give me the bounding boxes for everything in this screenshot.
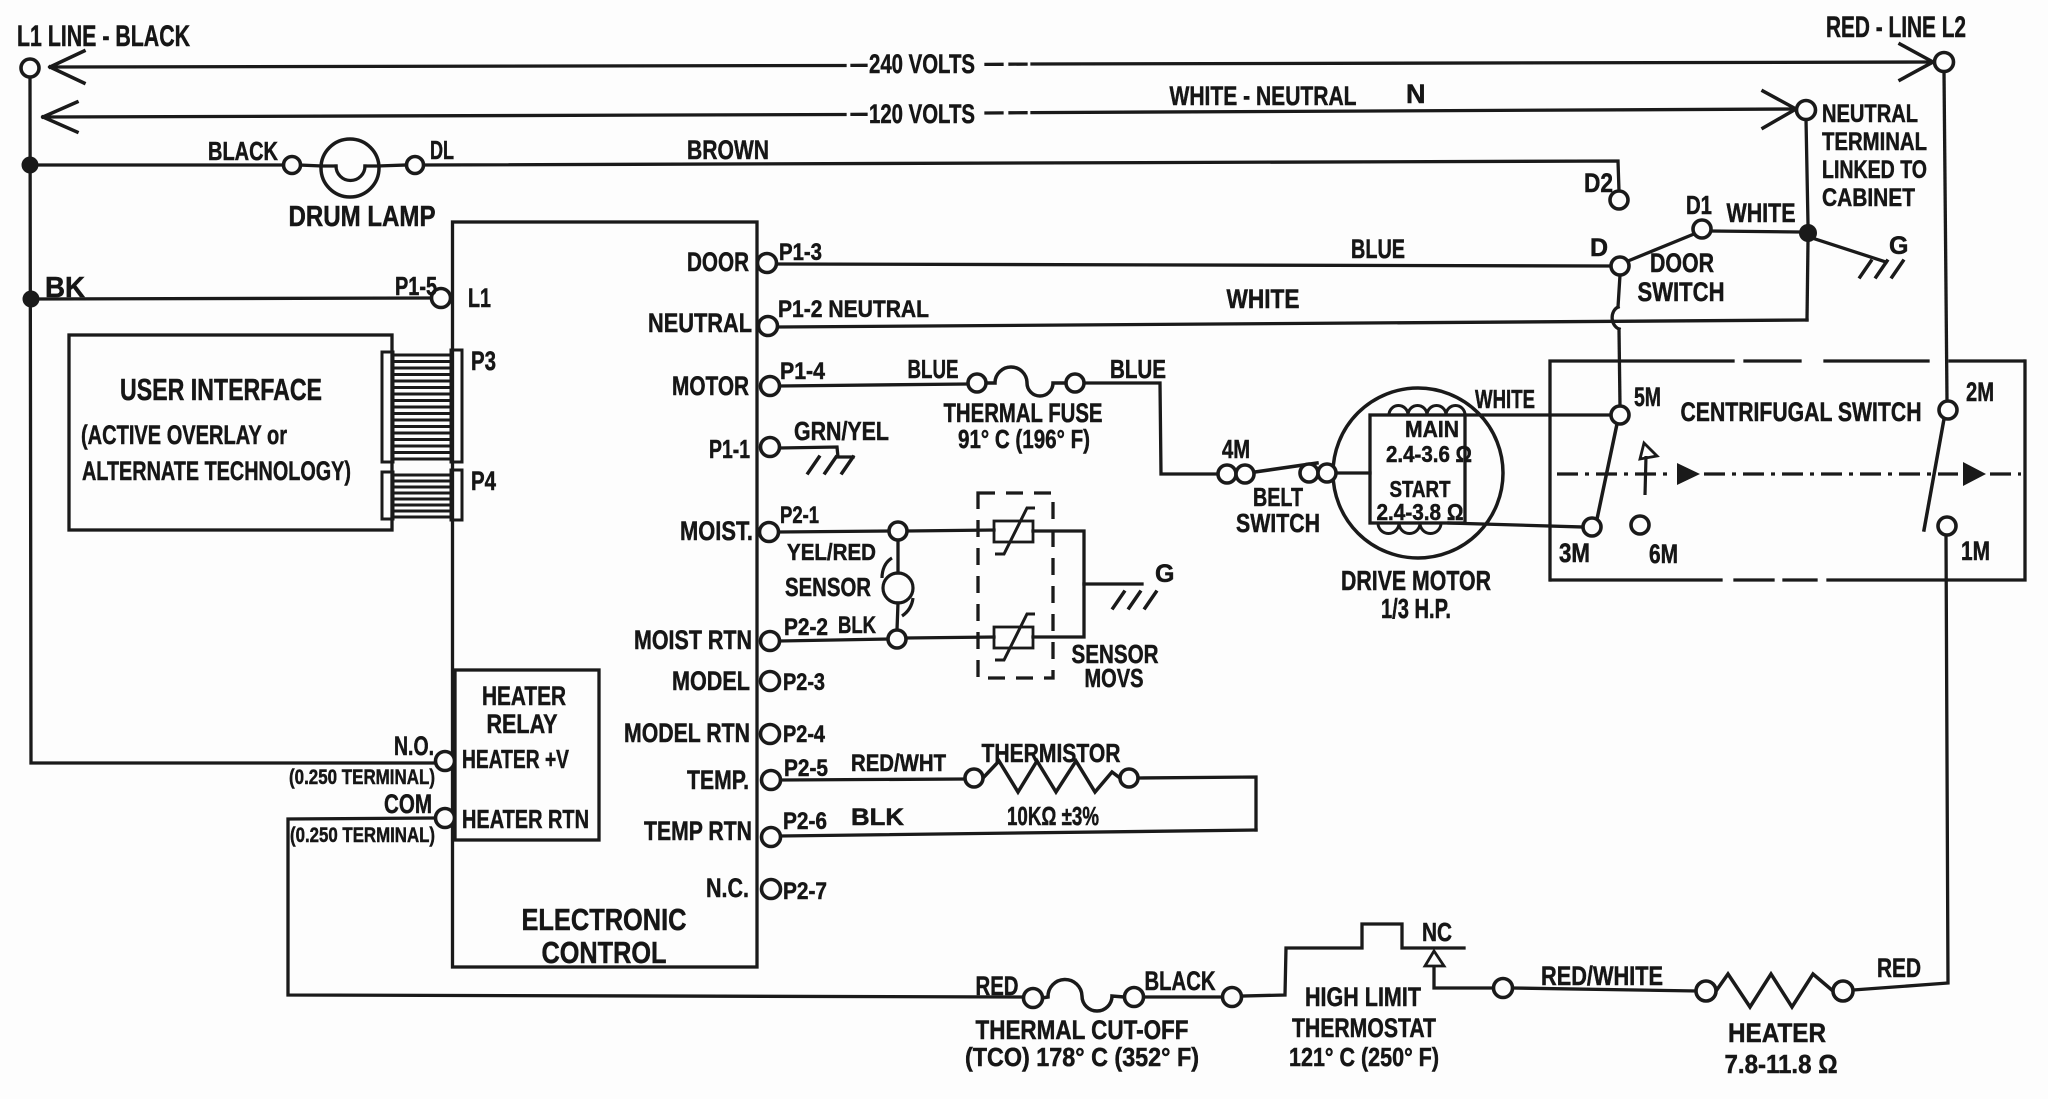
- svg-text:HEATER: HEATER: [1728, 1018, 1826, 1048]
- svg-text:BLK: BLK: [838, 612, 877, 639]
- svg-text:HIGH LIMIT: HIGH LIMIT: [1305, 982, 1421, 1012]
- svg-text:4M: 4M: [1222, 434, 1250, 464]
- svg-text:RELAY: RELAY: [487, 709, 558, 739]
- svg-text:YEL/RED: YEL/RED: [787, 539, 876, 565]
- svg-text:DOOR: DOOR: [687, 247, 749, 277]
- svg-text:2.4-3.8 Ω: 2.4-3.8 Ω: [1377, 499, 1464, 525]
- svg-text:D: D: [1590, 234, 1608, 262]
- svg-text:COM: COM: [384, 789, 432, 819]
- svg-text:CENTRIFUGAL SWITCH: CENTRIFUGAL SWITCH: [1681, 397, 1922, 427]
- svg-text:P2-3: P2-3: [783, 669, 825, 696]
- svg-text:ELECTRONIC: ELECTRONIC: [522, 902, 687, 937]
- svg-text:P2-5: P2-5: [784, 755, 828, 782]
- svg-text:(TCO) 178° C (352° F): (TCO) 178° C (352° F): [965, 1042, 1199, 1072]
- svg-text:3M: 3M: [1559, 538, 1590, 568]
- svg-text:RED - LINE L2: RED - LINE L2: [1826, 11, 1966, 44]
- svg-text:121° C (250° F): 121° C (250° F): [1289, 1042, 1439, 1072]
- svg-text:SWITCH: SWITCH: [1638, 277, 1725, 307]
- svg-text:P1-3: P1-3: [779, 239, 822, 266]
- svg-text:P2-2: P2-2: [784, 614, 828, 641]
- svg-text:GRN/YEL: GRN/YEL: [794, 416, 889, 446]
- svg-text:NEUTRAL: NEUTRAL: [1822, 100, 1918, 128]
- svg-text:N: N: [1406, 79, 1426, 109]
- svg-text:RED: RED: [976, 971, 1019, 1001]
- svg-text:7.8-11.8 Ω: 7.8-11.8 Ω: [1725, 1049, 1838, 1079]
- svg-text:MOTOR: MOTOR: [672, 371, 749, 401]
- svg-text:BLK: BLK: [851, 804, 905, 831]
- svg-text:P2-1: P2-1: [780, 502, 819, 529]
- svg-text:BK: BK: [45, 272, 85, 304]
- svg-text:2M: 2M: [1966, 377, 1994, 407]
- svg-text:(0.250 TERMINAL): (0.250 TERMINAL): [290, 824, 435, 847]
- svg-text:P2-4: P2-4: [783, 721, 826, 748]
- svg-text:MAIN: MAIN: [1405, 416, 1459, 442]
- svg-text:WHITE - NEUTRAL: WHITE - NEUTRAL: [1170, 81, 1357, 111]
- svg-text:P3: P3: [471, 346, 496, 376]
- svg-text:MODEL RTN: MODEL RTN: [624, 718, 750, 748]
- svg-text:SWITCH: SWITCH: [1236, 508, 1320, 538]
- svg-text:TERMINAL: TERMINAL: [1822, 128, 1927, 156]
- svg-text:THERMISTOR: THERMISTOR: [982, 738, 1121, 768]
- svg-text:CABINET: CABINET: [1822, 184, 1915, 212]
- svg-text:G: G: [1155, 560, 1174, 588]
- svg-text:P1-1: P1-1: [709, 434, 750, 464]
- svg-text:D2: D2: [1584, 168, 1613, 198]
- svg-text:10KΩ ±3%: 10KΩ ±3%: [1007, 801, 1099, 831]
- svg-text:BLACK: BLACK: [208, 136, 278, 166]
- svg-text:MOIST RTN: MOIST RTN: [634, 625, 752, 655]
- svg-text:RED: RED: [1877, 953, 1921, 983]
- svg-text:SENSOR: SENSOR: [785, 572, 871, 602]
- svg-text:P1-5: P1-5: [395, 271, 437, 301]
- svg-text:(ACTIVE OVERLAY or: (ACTIVE OVERLAY or: [81, 420, 287, 450]
- svg-text:L1: L1: [468, 283, 491, 313]
- svg-text:N.C.: N.C.: [706, 873, 749, 903]
- svg-text:HEATER +V: HEATER +V: [462, 744, 569, 774]
- svg-text:1M: 1M: [1961, 536, 1990, 566]
- svg-text:5M: 5M: [1634, 382, 1661, 412]
- svg-text:L1 LINE - BLACK: L1 LINE - BLACK: [17, 20, 190, 53]
- svg-text:DL: DL: [430, 135, 454, 165]
- svg-text:WHITE: WHITE: [1475, 384, 1535, 414]
- svg-text:RED/WHITE: RED/WHITE: [1541, 961, 1663, 991]
- svg-text:WHITE: WHITE: [1227, 284, 1300, 314]
- svg-text:HEATER RTN: HEATER RTN: [462, 804, 589, 834]
- svg-text:P1-2 NEUTRAL: P1-2 NEUTRAL: [778, 296, 929, 323]
- svg-text:MODEL: MODEL: [672, 666, 750, 696]
- svg-text:(0.250 TERMINAL): (0.250 TERMINAL): [289, 766, 435, 789]
- svg-text:N.O.: N.O.: [394, 731, 434, 761]
- svg-text:NC: NC: [1422, 917, 1452, 947]
- svg-text:P2-7: P2-7: [783, 878, 827, 905]
- svg-text:P1-4: P1-4: [780, 358, 826, 385]
- svg-text:THERMOSTAT: THERMOSTAT: [1292, 1013, 1436, 1043]
- svg-text:ALTERNATE TECHNOLOGY): ALTERNATE TECHNOLOGY): [82, 456, 351, 486]
- svg-text:WHITE: WHITE: [1727, 198, 1796, 228]
- svg-text:BLACK: BLACK: [1145, 966, 1216, 996]
- svg-text:91° C (196° F): 91° C (196° F): [958, 424, 1090, 454]
- svg-text:USER INTERFACE: USER INTERFACE: [120, 372, 322, 407]
- svg-text:MOIST.: MOIST.: [680, 516, 753, 546]
- svg-text:DRUM LAMP: DRUM LAMP: [289, 201, 436, 233]
- svg-text:BLUE: BLUE: [908, 354, 959, 384]
- svg-text:BROWN: BROWN: [687, 135, 769, 165]
- svg-text:DOOR: DOOR: [1650, 248, 1714, 278]
- svg-text:HEATER: HEATER: [482, 681, 566, 711]
- svg-text:NEUTRAL: NEUTRAL: [648, 308, 752, 338]
- svg-text:P4: P4: [471, 466, 496, 496]
- svg-text:1/3 H.P.: 1/3 H.P.: [1381, 593, 1451, 624]
- svg-text:TEMP.: TEMP.: [687, 765, 749, 795]
- svg-text:6M: 6M: [1649, 539, 1678, 569]
- svg-text:2.4-3.6 Ω: 2.4-3.6 Ω: [1386, 441, 1472, 467]
- svg-text:DRIVE MOTOR: DRIVE MOTOR: [1341, 565, 1491, 596]
- svg-text:BLUE: BLUE: [1351, 234, 1405, 264]
- svg-text:D1: D1: [1686, 190, 1712, 220]
- svg-text:RED/WHT: RED/WHT: [851, 750, 946, 777]
- svg-text:G: G: [1889, 232, 1908, 260]
- svg-text:P2-6: P2-6: [783, 808, 827, 835]
- svg-text:BLUE: BLUE: [1110, 354, 1166, 384]
- svg-text:MOVS: MOVS: [1085, 663, 1144, 693]
- svg-text:TEMP RTN: TEMP RTN: [644, 816, 752, 846]
- svg-text:CONTROL: CONTROL: [542, 935, 667, 970]
- svg-text:240 VOLTS: 240 VOLTS: [869, 49, 975, 79]
- svg-text:THERMAL CUT-OFF: THERMAL CUT-OFF: [976, 1015, 1189, 1045]
- svg-text:LINKED TO: LINKED TO: [1822, 156, 1927, 184]
- svg-text:120 VOLTS: 120 VOLTS: [869, 99, 975, 129]
